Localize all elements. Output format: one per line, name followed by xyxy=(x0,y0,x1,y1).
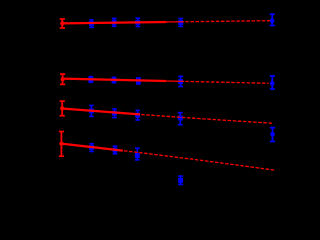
series 1 blue square point P1d with error bar xyxy=(178,19,183,27)
series 3 fit line dashed extrapolation xyxy=(141,115,272,124)
series 2 fit line thin solid segment xyxy=(166,80,184,82)
series 1 blue reference point at target x with error bar xyxy=(270,14,275,25)
series 4 blue square point P4d with error bar (far below fit line) xyxy=(178,176,183,184)
series 2 blue square point P2b with error bar xyxy=(112,77,117,82)
series 3 blue square point P3c with error bar xyxy=(135,110,140,120)
series 2 fit line dashed extrapolation xyxy=(185,81,268,83)
series 2 blue reference point at target x with error bar xyxy=(270,76,275,89)
series 3 blue square point P3b with error bar xyxy=(112,109,117,118)
series 3 fit line solid thick segment xyxy=(62,109,140,115)
series 2 blue square point P2c with error bar xyxy=(136,78,141,84)
series 3 blue square point P3a with error bar xyxy=(89,105,94,116)
series 1 fit line dashed extrapolation xyxy=(185,21,272,22)
series 4 red extrapolated point with error bar xyxy=(59,132,64,157)
series 4 blue square point P4c with error bar (below fit line) xyxy=(135,148,140,160)
series 2 blue square point P2a with error bar xyxy=(88,77,93,83)
series 1 blue square point P1b with error bar xyxy=(112,18,117,26)
series 1 blue square point P1c with error bar xyxy=(135,18,140,26)
series 1 blue square point P1a with error bar xyxy=(89,20,94,28)
series 1 red extrapolated point with error bar xyxy=(60,19,65,28)
series 1 fit line thin solid segment xyxy=(166,21,184,23)
series 3 blue reference point at target x with error bar xyxy=(270,128,275,142)
series 4 fit line dashed extrapolation xyxy=(124,151,275,170)
series 4 fit line solid thick segment xyxy=(61,144,122,151)
series 4 blue square point P4b with error bar xyxy=(113,146,118,154)
series 4 blue square point P4a with error bar xyxy=(89,144,94,152)
series 3 blue square point P3d with error bar xyxy=(178,113,183,125)
series 2 blue square point P2d with error bar xyxy=(178,76,183,86)
series 3 red extrapolated point with error bar xyxy=(60,101,65,116)
series 1 fit line solid thick segment xyxy=(62,22,166,23)
series 2 red extrapolated point with error bar xyxy=(60,74,65,84)
series 2 fit line solid thick segment xyxy=(62,79,166,81)
